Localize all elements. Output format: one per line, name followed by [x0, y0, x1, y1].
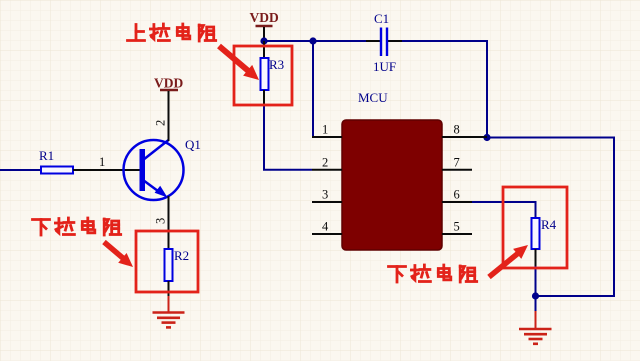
MCU pin 1: [312, 123, 342, 138]
node C junction (pin 8): [483, 134, 490, 141]
svg-text:2: 2: [154, 120, 168, 126]
MCU U1 body: [342, 90, 442, 250]
svg-text:7: 7: [454, 155, 460, 169]
node B junction: [309, 37, 316, 44]
MCU pin 5: [442, 220, 472, 235]
svg-text:1: 1: [99, 155, 105, 169]
svg-text:3: 3: [322, 188, 328, 202]
svg-text:6: 6: [454, 188, 460, 202]
svg-text:R4: R4: [541, 217, 557, 232]
电: [438, 269, 449, 277]
wire node C right and down to node D: [487, 138, 614, 297]
resistor R1: [39, 148, 73, 174]
svg-text:MCU: MCU: [358, 90, 388, 105]
capacitor C1: [366, 11, 403, 74]
node D junction: [532, 292, 539, 299]
阻: [459, 266, 462, 282]
svg-text:Q1: Q1: [185, 137, 201, 152]
MCU pin 2: [312, 155, 342, 170]
annotation text 下拉电阻 (pull-down resistor, right): [389, 265, 477, 282]
annotation red box around R4: [503, 187, 567, 268]
svg-text:1: 1: [322, 123, 328, 137]
svg-text:C1: C1: [374, 11, 389, 26]
node A junction: [260, 37, 267, 44]
拉: [150, 28, 157, 31]
svg-text:VDD: VDD: [154, 76, 183, 91]
svg-text:R3: R3: [269, 57, 284, 72]
annotation red box around R3: [234, 46, 292, 105]
wire Q1 emitter pin 3 to R2: [168, 196, 170, 249]
拉: [411, 269, 418, 272]
wire R3 bottom to MCU pin 2: [264, 90, 312, 170]
svg-text:R1: R1: [39, 148, 54, 163]
wire VDD to node A: [263, 27, 265, 41]
wire Q1 collector pin 2: [168, 91, 170, 141]
电: [82, 222, 93, 230]
下: [33, 218, 50, 221]
svg-text:2: 2: [322, 155, 328, 169]
annotation arrow to R2: [104, 242, 133, 267]
resistor R3: [261, 41, 285, 90]
power VDD (Q1 collector): [154, 76, 183, 91]
ground (left): [153, 313, 185, 328]
MCU pin 4: [312, 220, 342, 235]
svg-text:1UF: 1UF: [373, 59, 396, 74]
svg-text:4: 4: [322, 220, 329, 234]
ground lead (left): [168, 296, 170, 312]
MCU pin 3: [312, 188, 342, 203]
annotation arrow to R3: [219, 46, 259, 80]
MCU pin 8: [442, 123, 487, 138]
ground lead (right): [535, 311, 537, 328]
wire R4 bottom to node D: [535, 249, 537, 312]
transistor Q1: [124, 137, 201, 200]
power VDD (top, R3): [250, 10, 279, 26]
wire net input to R1: [0, 169, 41, 171]
阻: [103, 219, 106, 235]
wire R1 to Q1 base: [73, 169, 140, 171]
MCU pin 7: [442, 155, 472, 170]
resistor R4: [532, 217, 557, 249]
svg-text:5: 5: [454, 220, 460, 234]
annotation red box around R2: [136, 231, 198, 292]
MCU pin 6: [442, 188, 472, 203]
svg-text:R2: R2: [174, 248, 189, 263]
annotation arrow to R4: [489, 245, 528, 277]
svg-text:3: 3: [154, 218, 168, 224]
下: [389, 265, 406, 268]
电: [177, 28, 188, 36]
svg-text:8: 8: [454, 123, 460, 137]
拉: [55, 222, 62, 225]
resistor R2: [165, 248, 190, 281]
svg-text:VDD: VDD: [250, 10, 279, 25]
wire R2 bottom lead: [168, 281, 170, 296]
wire node A to C1: [264, 40, 380, 42]
上: [135, 25, 138, 41]
wire C1 to node C: [402, 41, 487, 138]
wire node B down to MCU pin 1: [312, 41, 314, 137]
annotation text 下拉电阻 (pull-down resistor, left): [33, 218, 121, 235]
annotation text 上拉电阻 (pull-up resistor): [128, 24, 216, 41]
wire pin 6 to R4: [472, 202, 536, 218]
阻: [198, 25, 201, 41]
ground (right): [519, 329, 552, 344]
